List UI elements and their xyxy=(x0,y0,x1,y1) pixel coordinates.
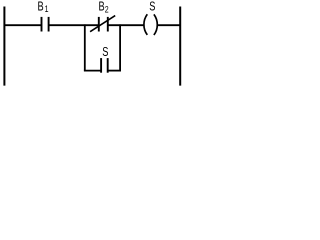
wire: contact B2 to coil S xyxy=(108,24,144,26)
branch right vertical wire xyxy=(119,24,121,70)
branch contact S left bar xyxy=(100,58,102,73)
wire: contact B1 to contact B2 xyxy=(49,24,99,26)
wire: left rail to contact B1 xyxy=(4,24,42,26)
contact B2 NC slash xyxy=(90,16,115,32)
coil S right parenthesis xyxy=(154,14,157,35)
svg-text:1: 1 xyxy=(45,3,49,14)
branch bottom right wire xyxy=(108,70,121,72)
svg-text:S: S xyxy=(102,46,108,60)
svg-text:B: B xyxy=(38,0,44,14)
contact B1 right bar xyxy=(48,17,50,32)
contact B2 right bar xyxy=(107,17,109,32)
branch contact S right bar xyxy=(107,58,109,73)
left power rail xyxy=(3,7,5,86)
contact B2 left bar xyxy=(98,17,100,32)
contact B1 left bar xyxy=(41,17,43,32)
right power rail xyxy=(179,7,181,86)
svg-text:B: B xyxy=(99,0,105,14)
coil S left parenthesis xyxy=(144,14,147,35)
branch left vertical wire xyxy=(84,24,86,70)
branch bottom left wire xyxy=(84,70,101,72)
wire: coil S to right rail xyxy=(157,24,180,26)
svg-text:S: S xyxy=(149,0,155,14)
svg-text:2: 2 xyxy=(105,3,109,14)
